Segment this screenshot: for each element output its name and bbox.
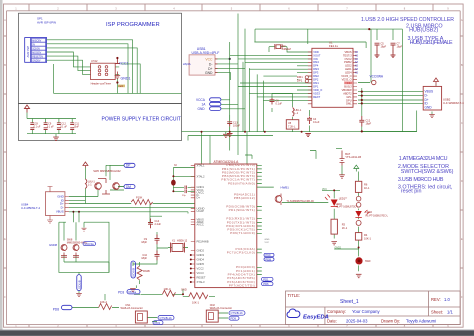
svg-text:B: B bbox=[461, 63, 463, 67]
svg-text:RESET5V: RESET5V bbox=[32, 55, 43, 58]
svg-text:Company:: Company: bbox=[327, 309, 346, 314]
svg-text:P10K: P10K bbox=[136, 196, 143, 200]
svg-text:18pF: 18pF bbox=[141, 257, 147, 260]
svg-text:PD1: PD1 bbox=[263, 277, 269, 281]
svg-text:GND5V: GND5V bbox=[32, 59, 41, 62]
svg-text:1.USB 2.0 HIGH SPEED CONTROLLE: 1.USB 2.0 HIGH SPEED CONTROLLER bbox=[361, 17, 454, 23]
svg-text:WH6-2A Connector: WH6-2A Connector bbox=[210, 306, 232, 310]
svg-text:D: D bbox=[4, 179, 6, 183]
svg-text:0.1 uF: 0.1 uF bbox=[60, 126, 67, 129]
svg-text:GPL: GPL bbox=[346, 95, 352, 99]
svg-text:DP: DP bbox=[126, 164, 130, 168]
svg-text:POWER SUPPLY FILTER CIRCUIT: POWER SUPPLY FILTER CIRCUIT bbox=[102, 117, 181, 123]
svg-text:AVR ISP: AVR ISP bbox=[26, 46, 30, 58]
svg-text:DM1: DM1 bbox=[313, 81, 319, 85]
svg-text:VD33: VD33 bbox=[313, 91, 320, 95]
svg-text:Header-conThree: Header-conThree bbox=[91, 81, 112, 85]
svg-text:SWITCH(SW2 &SW6): SWITCH(SW2 &SW6) bbox=[401, 169, 454, 175]
svg-text:VCC: VCC bbox=[265, 242, 270, 244]
svg-text:GND1: GND1 bbox=[121, 77, 131, 81]
svg-text:PD8: PD8 bbox=[53, 308, 59, 312]
svg-text:1K-1: 1K-1 bbox=[342, 226, 348, 230]
svg-text:D+: D+ bbox=[197, 196, 201, 200]
svg-text:D-: D- bbox=[425, 94, 428, 98]
svg-text:10K-1: 10K-1 bbox=[192, 301, 199, 305]
svg-text:GND5: GND5 bbox=[197, 262, 205, 266]
svg-text:PD3: PD3 bbox=[118, 290, 124, 294]
svg-text:7.2K-L: 7.2K-L bbox=[288, 125, 296, 128]
svg-text:DP4: DP4 bbox=[313, 64, 319, 68]
svg-text:C: C bbox=[4, 121, 6, 125]
svg-text:Your Company: Your Company bbox=[352, 309, 380, 314]
svg-text:LED2: LED2 bbox=[345, 64, 352, 68]
svg-text:C?S/B-1b: C?S/B-1b bbox=[231, 311, 244, 315]
svg-text:BUS/J: BUS/J bbox=[344, 84, 352, 88]
svg-text:12MHZ: 12MHZ bbox=[282, 47, 291, 51]
svg-text:DM: DM bbox=[126, 185, 131, 189]
svg-text:GND2: GND2 bbox=[197, 248, 205, 252]
svg-text:10K-1: 10K-1 bbox=[364, 237, 371, 241]
svg-text:PD6: PD6 bbox=[263, 282, 269, 286]
svg-text:18pF: 18pF bbox=[141, 241, 147, 244]
svg-text:GND: GND bbox=[198, 107, 206, 111]
svg-text:VCC: VCC bbox=[205, 57, 213, 61]
svg-text:LED1**: LED1** bbox=[339, 197, 348, 201]
svg-text:10K-2: 10K-2 bbox=[100, 300, 107, 304]
svg-text:SCK/B: SCK/B bbox=[77, 280, 81, 289]
svg-text:VCC0WA: VCC0WA bbox=[370, 75, 384, 79]
svg-text:VCC: VCC bbox=[322, 189, 327, 191]
svg-text:3.USB M0RCO HUB: 3.USB M0RCO HUB bbox=[398, 177, 444, 183]
svg-text:R4: R4 bbox=[364, 233, 368, 237]
svg-text:Sheet_1: Sheet_1 bbox=[340, 299, 359, 305]
svg-text:VCC3: VCC3 bbox=[197, 271, 205, 275]
svg-text:MOSI5V: MOSI5V bbox=[32, 51, 41, 54]
svg-text:DP1: DP1 bbox=[297, 79, 303, 83]
svg-text:Drawn By:: Drawn By: bbox=[381, 319, 400, 324]
svg-text:1K-1: 1K-1 bbox=[364, 186, 370, 190]
svg-text:10uF: 10uF bbox=[74, 126, 80, 129]
svg-text:PWR2: PWR2 bbox=[344, 60, 352, 64]
svg-text:XOUT: XOUT bbox=[313, 53, 321, 57]
svg-text:DP3: DP3 bbox=[313, 71, 319, 75]
svg-text:GND8: GND8 bbox=[49, 243, 57, 247]
svg-text:L-1: L-1 bbox=[295, 112, 299, 115]
svg-text:16pF: 16pF bbox=[381, 46, 387, 49]
svg-text:1/1: 1/1 bbox=[447, 310, 453, 315]
svg-text:ISP PROGRAMMER: ISP PROGRAMMER bbox=[106, 22, 160, 28]
svg-text:2A|3A: 2A|3A bbox=[183, 62, 191, 66]
svg-text:2025-04-03: 2025-04-03 bbox=[346, 319, 368, 324]
svg-text:DP2: DP2 bbox=[313, 78, 319, 82]
svg-text:D: D bbox=[461, 179, 463, 183]
svg-text:PC7(ICP3/CLK0): PC7(ICP3/CLK0) bbox=[227, 251, 255, 255]
svg-text:SW9: SW9 bbox=[365, 260, 371, 263]
svg-text:HUB(USB1)FEMALE: HUB(USB1)FEMALE bbox=[410, 40, 453, 46]
svg-text:PCF: PCF bbox=[266, 253, 272, 257]
svg-text:LED1: LED1 bbox=[345, 67, 352, 71]
svg-text:0.1uF: 0.1uF bbox=[276, 103, 283, 106]
svg-text:XTAL3: XTAL3 bbox=[197, 280, 206, 284]
svg-text:PD1(SDA/INT1): PD1(SDA/INT1) bbox=[229, 208, 256, 212]
svg-text:VD33: VD33 bbox=[345, 81, 352, 85]
svg-text:R6: R6 bbox=[364, 183, 368, 187]
svg-text:DM3: DM3 bbox=[313, 67, 319, 71]
svg-text:U-F-M5DW-T-4: U-F-M5DW-T-4 bbox=[21, 206, 41, 210]
svg-text:GND4: GND4 bbox=[197, 257, 205, 261]
svg-text:1.ATMEGA32U4 MCU: 1.ATMEGA32U4 MCU bbox=[399, 156, 448, 162]
svg-text:PD3: PD3 bbox=[155, 321, 161, 325]
svg-text:MISO5V: MISO5V bbox=[32, 39, 41, 42]
svg-text:0.1uF: 0.1uF bbox=[313, 121, 320, 124]
svg-text:E: E bbox=[4, 237, 6, 241]
svg-text:PB5(ADC12): PB5(ADC12) bbox=[234, 196, 255, 200]
svg-text:XIN: XIN bbox=[313, 57, 317, 61]
svg-text:AVR ISP 6PIN: AVR ISP 6PIN bbox=[37, 21, 56, 25]
svg-text:U-F-W90DM-T-4: U-F-W90DM-T-4 bbox=[443, 101, 464, 105]
svg-text:GND: GND bbox=[265, 239, 270, 241]
svg-text:XTAL1: XTAL1 bbox=[197, 164, 206, 168]
svg-text:SCK/B: SCK/B bbox=[132, 268, 136, 277]
svg-text:0.1 uF: 0.1 uF bbox=[47, 126, 54, 129]
svg-text:USB-A-90D=4PLF: USB-A-90D=4PLF bbox=[192, 51, 220, 55]
svg-text:PD9: PD9 bbox=[231, 317, 237, 321]
svg-text:0.1 uF: 0.1 uF bbox=[34, 126, 41, 129]
svg-text:GND: GND bbox=[425, 105, 433, 109]
svg-text:WH6-2A Connector: WH6-2A Connector bbox=[121, 306, 143, 310]
svg-text:LED4: LED4 bbox=[345, 71, 352, 75]
svg-text:D-: D- bbox=[209, 62, 213, 66]
svg-text:AVCC: AVCC bbox=[197, 223, 204, 227]
svg-text:HSE6-12: HSE6-12 bbox=[177, 240, 188, 243]
svg-text:RN4B: RN4B bbox=[143, 270, 150, 273]
svg-text:HL-PT-1608U070C-L: HL-PT-1608U070C-L bbox=[366, 214, 389, 217]
svg-text:GND3: GND3 bbox=[197, 253, 205, 257]
svg-text:VCC1: VCC1 bbox=[119, 61, 129, 65]
svg-text:DML: DML bbox=[346, 102, 352, 106]
svg-text:TITLE:: TITLE: bbox=[288, 293, 301, 298]
svg-text:DM2: DM2 bbox=[313, 74, 319, 78]
svg-text:HL-PT-1608U070C-L: HL-PT-1608U070C-L bbox=[336, 206, 359, 209]
svg-text:HWB1: HWB1 bbox=[281, 185, 290, 189]
svg-text:R3: R3 bbox=[342, 223, 346, 227]
svg-text:VDD_O: VDD_O bbox=[313, 88, 322, 92]
svg-text:C: C bbox=[461, 121, 463, 125]
svg-text:YTS-A011-1B: YTS-A011-1B bbox=[345, 155, 361, 159]
svg-text:GND2: GND2 bbox=[335, 248, 342, 250]
svg-text:VBUMW: VBUMW bbox=[342, 88, 352, 92]
svg-text:B: B bbox=[4, 63, 6, 67]
svg-text:PE2/HWB: PE2/HWB bbox=[197, 239, 209, 243]
svg-text:U?A2: U?A2 bbox=[91, 59, 98, 63]
svg-text:XTAL2: XTAL2 bbox=[197, 174, 206, 178]
svg-text:100uF: 100uF bbox=[233, 124, 241, 127]
svg-text:SCK5V: SCK5V bbox=[32, 47, 40, 50]
svg-text:Toyyib Adewumi: Toyyib Adewumi bbox=[406, 319, 436, 324]
svg-text:10K-3: 10K-3 bbox=[164, 287, 171, 291]
svg-text:ABDT2: ABDT2 bbox=[343, 91, 352, 95]
svg-text:OVC2: OVC2 bbox=[345, 57, 353, 61]
svg-text:EasyEDA: EasyEDA bbox=[303, 315, 329, 321]
svg-text:16pF: 16pF bbox=[366, 123, 372, 126]
svg-text:E: E bbox=[461, 237, 463, 241]
svg-text:A: A bbox=[4, 18, 6, 22]
svg-text:L-1: L-1 bbox=[88, 184, 92, 187]
svg-text:VCC5_O: VCC5_O bbox=[341, 74, 351, 78]
svg-text:HUB(USB2): HUB(USB2) bbox=[409, 28, 438, 34]
svg-text:reset pin: reset pin bbox=[401, 189, 422, 195]
svg-text:UCAP: UCAP bbox=[197, 209, 205, 213]
svg-text:C?S/B-1b: C?S/B-1b bbox=[160, 316, 173, 320]
svg-text:DP1: DP1 bbox=[313, 84, 319, 88]
svg-text:PE6(INT6/AIN0): PE6(INT6/AIN0) bbox=[228, 181, 255, 185]
svg-text:VCCA: VCCA bbox=[196, 98, 206, 102]
svg-text:PDB: PDB bbox=[266, 257, 272, 261]
svg-text:PD3a: PD3a bbox=[129, 290, 137, 294]
svg-text:VD33_O: VD33_O bbox=[342, 78, 352, 82]
svg-text:Sheet:: Sheet: bbox=[431, 310, 443, 315]
svg-text:A: A bbox=[461, 18, 463, 22]
svg-text:16pF: 16pF bbox=[397, 46, 403, 49]
svg-text:GND: GND bbox=[181, 288, 187, 292]
svg-text:PD6(T1/ADC9): PD6(T1/ADC9) bbox=[230, 231, 255, 235]
svg-text:DM4: DM4 bbox=[313, 60, 319, 64]
svg-text:DPU: DPU bbox=[346, 98, 352, 102]
svg-text:VBUS: VBUS bbox=[345, 50, 352, 54]
svg-text:FE1.1s: FE1.1s bbox=[329, 44, 338, 48]
svg-text:2.2uF: 2.2uF bbox=[155, 223, 162, 226]
svg-text:PF7(ADC7/TDI): PF7(ADC7/TDI) bbox=[229, 283, 255, 287]
svg-text:VBUS: VBUS bbox=[56, 209, 64, 213]
svg-text:RESET: RESET bbox=[197, 275, 206, 279]
svg-text:SW6: SW6 bbox=[93, 169, 99, 173]
svg-text:TEST/J: TEST/J bbox=[343, 53, 352, 57]
svg-text:REXT: REXT bbox=[313, 95, 320, 99]
svg-text:1.0: 1.0 bbox=[444, 297, 450, 302]
svg-text:5V: 5V bbox=[32, 43, 35, 46]
svg-text:GND: GND bbox=[205, 71, 213, 75]
svg-text:VDD: VDD bbox=[313, 50, 319, 54]
svg-text:net1: net1 bbox=[119, 85, 124, 88]
svg-text:MMSS8050-H042: MMSS8050-H042 bbox=[100, 169, 121, 173]
svg-text:VCC2: VCC2 bbox=[197, 266, 205, 270]
svg-text:REV:: REV: bbox=[431, 297, 441, 302]
